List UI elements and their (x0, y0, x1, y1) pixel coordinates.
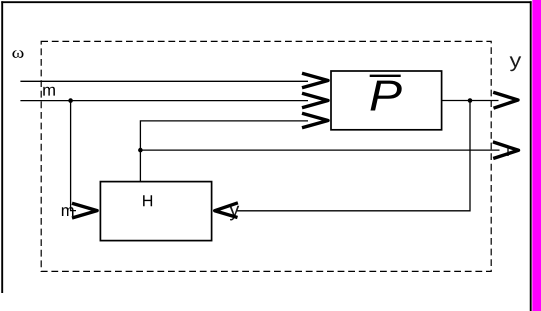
wire input 3 (from H output up and right) (140, 121, 308, 182)
label omega (12, 50, 23, 58)
wire P output (442, 100, 499, 102)
tick on lower output near arrowhead (507, 147, 509, 156)
overline of P (370, 75, 401, 77)
block P (331, 71, 442, 130)
arrowhead m into H (72, 203, 97, 218)
dashed system boundary box (41, 41, 491, 271)
frame top border (1, 1, 531, 3)
junction dot on P output (468, 98, 473, 103)
arrowhead input 1 into P (302, 73, 328, 88)
wire lower output (from riser junction to right edge) (140, 149, 499, 151)
wire input 2 (20, 100, 308, 102)
wire feedback from P output down and left to H (237, 101, 470, 211)
block H (100, 182, 211, 241)
wire input 1 (20, 80, 308, 82)
label y feedback at H (229, 206, 239, 221)
junction dot on H output riser (138, 148, 143, 153)
label y output (510, 56, 522, 71)
label m (top input) (43, 87, 55, 96)
wire vertical from input 2 down to H input (71, 101, 76, 211)
arrowhead input 2 into P (302, 93, 328, 108)
label H (143, 195, 152, 206)
label P italic (371, 81, 402, 111)
arrowhead input 3 into P (302, 113, 328, 128)
frame left border (1, 1, 3, 293)
arrowhead feedback into H (points left) (215, 203, 238, 218)
arrowhead lower output (493, 142, 519, 159)
label m (H input) (62, 207, 74, 216)
magenta side bar (532, 0, 541, 311)
frame right border (530, 1, 532, 311)
junction dot on input 2 (68, 98, 73, 103)
arrowhead output y (493, 92, 518, 108)
